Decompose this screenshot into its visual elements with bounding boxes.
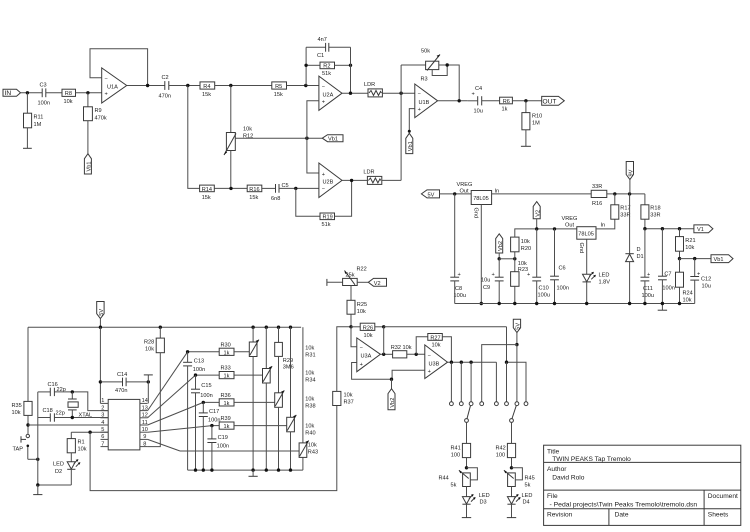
svg-text:LED: LED: [53, 462, 64, 468]
resistor R9: [87, 93, 89, 107]
svg-text:+: +: [322, 99, 325, 105]
node Vb2: [498, 257, 501, 260]
svg-text:+: +: [418, 107, 421, 113]
svg-text:5k: 5k: [525, 482, 531, 488]
op-amp U3A: [357, 338, 381, 372]
wire R20 top to In rail: [515, 229, 577, 237]
svg-text:100n: 100n: [217, 443, 229, 449]
svg-text:R41: R41: [451, 445, 461, 451]
capacitor C12: [694, 259, 696, 277]
svg-text:3M6: 3M6: [283, 365, 294, 371]
wire 5V rail LFO: [28, 326, 301, 328]
svg-text:10k: 10k: [308, 442, 317, 448]
op-amp U1A: [102, 68, 127, 103]
capacitor C4 10u: [477, 96, 479, 105]
wire row1: [188, 351, 220, 353]
wire up from output: [383, 327, 385, 355]
capacitor C5 6n8: [275, 184, 277, 193]
svg-text:R37: R37: [344, 399, 354, 405]
svg-text:−: −: [428, 353, 431, 359]
svg-text:R4: R4: [203, 84, 210, 90]
node U2B inverting: [294, 187, 297, 190]
wire C3 to R8: [46, 92, 62, 94]
capacitor C1 4n7: [325, 43, 327, 52]
ground D4: [507, 517, 516, 519]
pin 4: [101, 424, 109, 426]
svg-text:C12: C12: [701, 277, 711, 283]
wire LDR node vertical: [400, 65, 402, 180]
node U3A out: [382, 353, 385, 356]
svg-text:9: 9: [143, 434, 146, 440]
svg-text:10k: 10k: [364, 333, 373, 339]
resistor R28: [159, 327, 161, 338]
svg-text:5V: 5V: [516, 323, 522, 330]
svg-text:R28: R28: [144, 340, 154, 346]
svg-text:R17: R17: [620, 206, 630, 212]
svg-text:8: 8: [143, 441, 146, 447]
svg-text:R39: R39: [221, 416, 231, 422]
wire R22 wiper down: [350, 286, 352, 301]
capacitor C10: [536, 229, 538, 277]
switch TAP: [26, 434, 29, 437]
IC U4 body: [108, 399, 140, 450]
svg-text:+: +: [105, 92, 108, 98]
resistor R42: [511, 422, 513, 443]
resistor R17: [614, 194, 616, 205]
svg-text:+: +: [492, 272, 495, 278]
svg-text:Date: Date: [615, 512, 629, 519]
node sw3: [469, 361, 472, 364]
svg-text:V1: V1: [697, 227, 704, 233]
svg-text:−: −: [322, 84, 325, 90]
svg-text:In: In: [601, 223, 606, 229]
svg-text:13: 13: [142, 405, 148, 411]
wire R8 to U1A: [76, 92, 102, 94]
svg-text:10k: 10k: [243, 127, 252, 133]
node R10 tap: [524, 99, 527, 102]
wire VREG1 in to R16: [492, 193, 592, 195]
node pin5 gnd branch: [88, 431, 91, 434]
ground under R11: [26, 128, 28, 149]
wire U3A out line to switch: [384, 326, 507, 328]
wire R3 wiper loop: [432, 65, 447, 76]
potentiometer R12 10k: [226, 133, 235, 151]
wire R16 to C5: [262, 187, 275, 189]
svg-text:C7: C7: [664, 272, 671, 278]
LED D2: [67, 462, 75, 469]
svg-text:R18: R18: [650, 206, 660, 212]
pin 7: [101, 446, 109, 448]
svg-text:5k: 5k: [451, 482, 457, 488]
wire U1A output: [127, 85, 165, 87]
wire row2: [196, 374, 220, 376]
node V2 C10: [535, 227, 538, 230]
connector IN: [3, 89, 21, 96]
title block frame: [544, 445, 741, 525]
pin 1: [101, 402, 109, 404]
wire R3 right to output: [439, 65, 459, 101]
svg-text:LDR: LDR: [363, 170, 374, 176]
switch lever left: [467, 406, 471, 419]
svg-text:+: +: [697, 271, 700, 277]
svg-text:U1B: U1B: [419, 100, 430, 106]
resistor R1: [70, 432, 72, 438]
svg-text:Vb1: Vb1: [714, 257, 724, 263]
resistor R11: [26, 93, 28, 113]
wire C2 to R4: [169, 85, 200, 87]
port 5V switch: [513, 319, 520, 332]
resistor R8: [62, 89, 76, 96]
svg-text:TWIN PEAKS Tap Tremolo: TWIN PEAKS Tap Tremolo: [552, 456, 631, 463]
wire R5 to U2A: [287, 85, 319, 87]
wire pin5 ground return: [90, 406, 337, 491]
wire pin12 diagonal: [148, 375, 196, 418]
svg-text:1M: 1M: [532, 121, 540, 127]
capacitor C11: [644, 229, 646, 278]
wire R14 to R16: [214, 187, 247, 189]
LDR lower: [367, 176, 381, 184]
capacitor C6: [554, 229, 556, 276]
wire U1B output: [438, 100, 468, 102]
svg-text:6n8: 6n8: [271, 196, 280, 202]
svg-text:12: 12: [142, 413, 148, 419]
wire vertical to R14 row: [188, 86, 200, 189]
svg-text:50k: 50k: [421, 49, 430, 55]
svg-text:V2: V2: [535, 210, 541, 217]
svg-text:R30: R30: [221, 342, 231, 348]
pin 14: [140, 402, 148, 404]
wire R6 to OUT: [512, 100, 541, 102]
op-amp U2B: [319, 163, 342, 198]
svg-text:1k: 1k: [224, 374, 230, 380]
svg-text:VREG: VREG: [562, 216, 578, 222]
svg-text:1k: 1k: [224, 350, 230, 356]
wire R27 loop: [416, 337, 428, 355]
wire C1 top branch: [306, 46, 326, 48]
wire U1B plus to Vb1: [409, 109, 415, 132]
svg-text:22p: 22p: [56, 410, 65, 416]
wire row3: [203, 401, 219, 403]
wire R9 to Vb1: [87, 121, 89, 154]
svg-text:78L05: 78L05: [473, 196, 489, 202]
svg-text:R31: R31: [305, 352, 315, 358]
potentiometer R44: [463, 473, 471, 487]
wire R12 bottom to R14 row: [230, 151, 232, 189]
svg-text:R10: R10: [532, 114, 542, 120]
svg-text:U1A: U1A: [107, 85, 118, 91]
resistor R23: [514, 259, 516, 272]
svg-text:U2A: U2A: [323, 92, 334, 98]
node C14 right: [147, 380, 150, 383]
svg-text:5V: 5V: [428, 192, 435, 198]
svg-text:R44: R44: [439, 475, 449, 481]
wire C18 to pin3: [54, 417, 108, 419]
svg-text:470n: 470n: [115, 388, 127, 394]
wire LED bottom to gnd: [38, 484, 72, 486]
resistor R16: [247, 185, 262, 192]
svg-text:R45: R45: [525, 475, 535, 481]
svg-text:C1: C1: [317, 53, 324, 59]
svg-text:4: 4: [101, 420, 104, 426]
resistor R20: [514, 252, 516, 259]
resistor R29: [278, 327, 280, 342]
svg-text:R36: R36: [221, 393, 231, 399]
wire top rail dots: [251, 326, 254, 329]
svg-text:10k: 10k: [64, 99, 73, 105]
node U2B out: [350, 179, 353, 182]
wire down to R12: [230, 86, 232, 133]
node R3 wiper tie: [446, 63, 449, 66]
svg-text:2: 2: [101, 405, 104, 411]
resistor R18: [644, 194, 646, 205]
wire Vb2 to divider: [499, 258, 515, 260]
wire bottom rail LFO: [188, 469, 303, 471]
potentiometer R22 25k: [343, 278, 358, 285]
svg-text:Vb1: Vb1: [408, 141, 414, 151]
svg-text:+: +: [458, 272, 461, 278]
svg-text:Vb2: Vb2: [498, 241, 504, 251]
svg-text:78L05: 78L05: [578, 231, 594, 237]
capacitor C7: [661, 229, 663, 277]
resistor R4: [200, 82, 215, 89]
svg-text:R34: R34: [305, 378, 315, 384]
ground LFO rail: [252, 470, 254, 476]
svg-text:D4: D4: [523, 500, 530, 506]
capacitor C18 22p: [38, 417, 51, 419]
resistor R27: [428, 334, 443, 341]
svg-text:−: −: [322, 187, 325, 193]
potentiometer R45: [508, 473, 516, 487]
potentiometer R3 50k: [426, 61, 439, 69]
svg-text:R29: R29: [283, 358, 293, 364]
node R44 top: [465, 466, 468, 469]
pin 6: [101, 438, 109, 440]
svg-text:10k: 10k: [305, 397, 314, 403]
resistor R16 33R: [591, 190, 607, 197]
pin 8: [140, 446, 148, 448]
svg-text:C13: C13: [194, 359, 204, 365]
wire U3A plus to Vb2 node: [352, 363, 392, 380]
svg-text:+: +: [472, 92, 475, 98]
svg-text:100n: 100n: [38, 101, 50, 107]
svg-text:C3: C3: [40, 83, 47, 89]
resistor R36: [219, 399, 234, 406]
svg-text:15k: 15k: [202, 195, 211, 201]
node R2 right: [349, 64, 352, 67]
port V1: [694, 225, 713, 233]
node Vb1 tie: [305, 137, 308, 140]
svg-text:+: +: [322, 172, 325, 178]
resistor R25: [347, 300, 355, 314]
LED D3: [466, 487, 468, 497]
node U2A inverting: [304, 84, 307, 87]
wire TAP to gnd column: [28, 458, 38, 460]
node 5V fan: [515, 343, 518, 346]
svg-text:+: +: [428, 369, 431, 375]
capacitor C9: [498, 259, 500, 277]
svg-text:25k: 25k: [346, 272, 355, 278]
svg-text:LED: LED: [599, 273, 610, 279]
wire U2A output: [342, 92, 368, 94]
capacitor C14 470n: [100, 381, 122, 383]
svg-text:R2: R2: [323, 64, 330, 70]
wire C5 to U2B: [279, 187, 319, 189]
node R12 bottom join: [229, 187, 232, 190]
svg-text:Out: Out: [460, 189, 469, 195]
ground under R10: [525, 130, 527, 147]
svg-text:D3: D3: [480, 500, 487, 506]
node C6: [553, 227, 556, 230]
node R21: [678, 227, 681, 230]
pin 12: [140, 417, 148, 419]
svg-text:R32 10k: R32 10k: [391, 345, 412, 351]
svg-text:100: 100: [451, 452, 460, 458]
node Vb1 stub: [408, 130, 411, 133]
svg-text:100n: 100n: [208, 417, 220, 423]
node U3B minus: [415, 353, 418, 356]
svg-text:10: 10: [142, 427, 148, 433]
svg-text:R9: R9: [95, 108, 102, 114]
svg-text:470k: 470k: [95, 115, 107, 121]
svg-text:1k: 1k: [224, 401, 230, 407]
svg-text:R40: R40: [305, 430, 315, 436]
svg-text:10k: 10k: [344, 392, 353, 398]
svg-text:10k: 10k: [685, 245, 694, 251]
node C7: [661, 227, 664, 230]
diode D1: [629, 194, 631, 254]
svg-text:V2: V2: [374, 281, 381, 287]
svg-text:5: 5: [101, 427, 104, 433]
capacitor C16 22p: [38, 391, 51, 393]
node gnd rail VREG1: [480, 302, 483, 305]
svg-text:U2B: U2B: [323, 180, 334, 186]
node R17 top: [613, 192, 616, 195]
svg-text:R14: R14: [202, 187, 212, 193]
svg-text:R6: R6: [503, 99, 510, 105]
node sw1: [450, 361, 453, 364]
svg-text:3: 3: [101, 413, 104, 419]
svg-text:Vb2: Vb2: [390, 398, 396, 408]
svg-text:100u: 100u: [538, 293, 550, 299]
resistor R19: [320, 213, 335, 220]
node divider: [513, 257, 516, 260]
wire 5V to VREG out: [440, 193, 472, 195]
node Vb1 divider: [678, 257, 681, 260]
svg-text:R25: R25: [357, 302, 367, 308]
capacitor C2: [164, 81, 166, 90]
svg-text:1.8V: 1.8V: [599, 280, 611, 286]
capacitor C19: [211, 426, 213, 439]
svg-text:R27: R27: [430, 335, 440, 341]
port V2: [533, 202, 540, 219]
wire U2B feedback: [296, 188, 320, 216]
node split to lower band: [186, 84, 189, 87]
wire U3A feed to contacts: [507, 327, 527, 402]
port Vb1 under U1B: [406, 133, 413, 153]
ground D3: [462, 517, 471, 519]
svg-text:51k: 51k: [322, 222, 331, 228]
node 5V stem: [99, 326, 102, 329]
node feedback join: [458, 99, 461, 102]
wire row5: [180, 450, 299, 452]
svg-text:33R: 33R: [650, 213, 660, 219]
potentiometer R38: [278, 356, 280, 392]
wire U3A output: [380, 353, 392, 355]
node sw2: [460, 361, 463, 364]
svg-text:10k: 10k: [145, 347, 154, 353]
resistor R21: [679, 229, 681, 237]
svg-text:D: D: [637, 247, 641, 253]
svg-text:- Pedal projects\Twin Peaks Tr: - Pedal projects\Twin Peaks Tremolo\trem…: [550, 501, 698, 508]
svg-text:100n: 100n: [557, 286, 569, 292]
crystal XTAL: [71, 392, 73, 399]
svg-text:D1: D1: [637, 254, 644, 260]
wire C4 to R6: [482, 100, 500, 102]
svg-text:33R: 33R: [592, 184, 602, 190]
svg-text:R19: R19: [323, 215, 333, 221]
wire R4 to R5: [215, 85, 272, 87]
svg-text:C14: C14: [117, 372, 127, 378]
svg-text:R1: R1: [78, 440, 85, 446]
svg-text:R38: R38: [305, 404, 315, 410]
svg-text:TAP: TAP: [13, 447, 24, 453]
svg-text:R35: R35: [12, 403, 22, 409]
wire U2B output: [342, 179, 367, 181]
ground LFO left: [37, 485, 39, 495]
svg-text:15k: 15k: [249, 195, 258, 201]
svg-text:Revision: Revision: [547, 512, 573, 519]
wire U3B output: [448, 361, 497, 363]
svg-text:R11: R11: [34, 115, 44, 121]
LDR upper: [368, 89, 382, 97]
svg-text:10u: 10u: [474, 109, 483, 115]
node R9 tap: [86, 91, 89, 94]
svg-text:Document: Document: [708, 493, 738, 500]
svg-text:1k: 1k: [224, 424, 230, 430]
svg-text:LED: LED: [522, 493, 533, 499]
resistor R30: [219, 348, 234, 355]
svg-text:R33: R33: [221, 366, 231, 372]
node R26 right: [382, 325, 385, 328]
resistor R26: [351, 326, 360, 328]
svg-text:R26: R26: [363, 325, 373, 331]
wire pin1 to 5V rail: [99, 327, 101, 403]
svg-text:10k: 10k: [518, 261, 527, 267]
wire U2A feedback left vertical: [305, 47, 307, 85]
wire row4: [212, 425, 219, 427]
connector OUT: [542, 96, 565, 105]
svg-text:Vb1: Vb1: [328, 137, 338, 143]
pin 2: [101, 410, 109, 412]
ground rail power: [455, 303, 695, 305]
svg-text:C9: C9: [483, 285, 490, 291]
wire pin9 diagonal: [148, 439, 180, 451]
svg-text:R24: R24: [683, 291, 693, 297]
wire U3A minus from node: [351, 327, 357, 347]
svg-text:Vb1: Vb1: [87, 162, 93, 172]
svg-text:10k: 10k: [521, 239, 530, 245]
pin 11: [140, 424, 148, 426]
svg-text:C18: C18: [43, 408, 53, 414]
svg-text:Author: Author: [547, 466, 567, 473]
svg-text:R3: R3: [421, 77, 428, 83]
wire VREG2 in: [596, 219, 615, 229]
svg-text:10k: 10k: [12, 410, 21, 416]
svg-text:1: 1: [101, 398, 104, 404]
node C8 branch: [453, 192, 456, 195]
wire IN to C3: [21, 92, 43, 94]
capacitor C13: [187, 352, 189, 363]
